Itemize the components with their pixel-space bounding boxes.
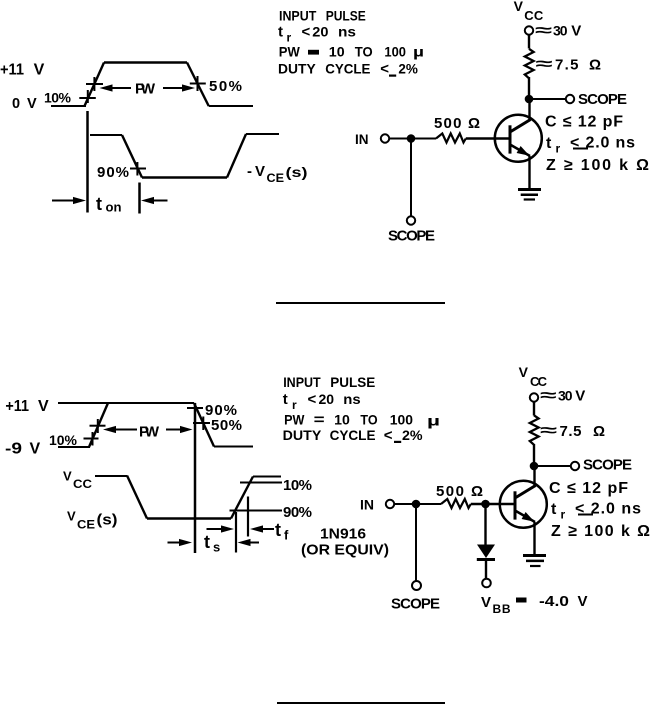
svg-text:V: V xyxy=(514,0,524,14)
svg-text:<: < xyxy=(380,60,389,77)
wire IN terminal to node xyxy=(389,138,407,140)
svg-text:V: V xyxy=(38,398,49,415)
wire input falling edge xyxy=(187,63,209,107)
svg-text:20: 20 xyxy=(312,23,328,39)
svg-text:C ≤ 12 pF: C ≤ 12 pF xyxy=(549,480,628,497)
node collector junction xyxy=(525,95,534,104)
PW right arrow xyxy=(163,87,183,89)
svg-text:SCOPE: SCOPE xyxy=(583,457,632,474)
svg-text:PULSE: PULSE xyxy=(330,374,375,390)
wire VCC level leader xyxy=(95,475,127,477)
resistor 500 ohm xyxy=(436,134,466,143)
wire node down to collector xyxy=(533,466,535,487)
terminal SCOPE collector xyxy=(571,462,579,470)
t_f left arrow xyxy=(207,528,223,530)
ground symbol xyxy=(518,188,541,191)
svg-text:100: 100 xyxy=(384,43,406,59)
wire resistor to base xyxy=(471,503,515,506)
svg-text:Z ≥ 100 k Ω: Z ≥ 100 k Ω xyxy=(546,157,649,174)
svg-text:CYCLE: CYCLE xyxy=(325,60,370,76)
svg-text:10%: 10% xyxy=(283,477,312,494)
svg-text:r: r xyxy=(561,508,566,522)
t_s left arrow xyxy=(168,542,181,544)
transistor Q1 body xyxy=(495,115,542,162)
leader 90% output xyxy=(230,510,283,512)
tick 10% on rising edge xyxy=(79,97,96,99)
node diode junction xyxy=(481,500,490,509)
wire input pulse top xyxy=(104,61,187,63)
svg-text:V: V xyxy=(575,388,585,405)
ground symbol xyxy=(523,554,546,557)
svg-text:≈: ≈ xyxy=(540,388,557,405)
tick 50% on falling edge xyxy=(193,422,210,424)
transistor Q1 collector lead xyxy=(510,120,531,133)
svg-text:<: < xyxy=(302,23,311,40)
svg-text:1N916: 1N916 xyxy=(320,526,366,543)
svg-text:0: 0 xyxy=(12,96,20,112)
svg-text:7.5: 7.5 xyxy=(555,57,579,74)
svg-text:90%: 90% xyxy=(283,504,312,521)
svg-text:s: s xyxy=(213,540,220,555)
t_on left arrow xyxy=(52,200,74,202)
wire +11V level line xyxy=(58,402,194,404)
wire diode to VBB terminal xyxy=(485,561,487,580)
svg-text:f: f xyxy=(284,528,289,543)
wire input rising edge xyxy=(85,63,105,107)
wire output top-left flat xyxy=(90,134,122,136)
diode 1N916 xyxy=(477,545,495,559)
wire IN terminal to node xyxy=(394,503,412,505)
svg-text:V: V xyxy=(481,594,491,611)
svg-text:PW: PW xyxy=(135,81,156,98)
svg-text:r: r xyxy=(556,142,561,156)
wire resistor to collector node xyxy=(528,77,530,99)
node collector junction xyxy=(530,462,539,471)
svg-text:≈: ≈ xyxy=(535,23,552,40)
wire emitter to ground xyxy=(528,156,530,189)
transistor Q2 base bar xyxy=(514,491,517,519)
svg-text:(OR EQUIV): (OR EQUIV) xyxy=(301,542,389,559)
svg-text:ns: ns xyxy=(343,391,361,407)
svg-text:20: 20 xyxy=(319,391,335,407)
wire VCC terminal to resistor xyxy=(528,35,530,49)
svg-text:10%: 10% xyxy=(49,432,78,448)
svg-text:ns: ns xyxy=(338,23,356,39)
wire node to resistor xyxy=(416,503,441,505)
tick 90% on falling edge xyxy=(187,407,203,409)
measurement line at 90% output point xyxy=(138,183,141,214)
t_f right arrow xyxy=(262,528,274,530)
svg-text:CYCLE: CYCLE xyxy=(330,427,376,443)
wire IN node down to scope xyxy=(410,139,412,217)
svg-text:Ω: Ω xyxy=(593,423,605,440)
wire node down to collector xyxy=(528,99,530,121)
svg-text:TO: TO xyxy=(355,43,373,59)
svg-text:CC: CC xyxy=(524,8,544,23)
svg-text:SCOPE: SCOPE xyxy=(388,228,435,245)
svg-text:t: t xyxy=(204,532,210,552)
svg-text:+11: +11 xyxy=(0,62,24,79)
svg-text:2%: 2% xyxy=(402,427,423,443)
svg-text:Ω: Ω xyxy=(589,57,601,74)
svg-text:Z ≥ 100 k Ω: Z ≥ 100 k Ω xyxy=(551,523,650,540)
svg-text:30: 30 xyxy=(553,23,568,39)
PW left arrow xyxy=(115,429,137,431)
svg-text:CE: CE xyxy=(77,518,95,532)
svg-text:SCOPE: SCOPE xyxy=(391,596,440,613)
svg-text:7.5: 7.5 xyxy=(560,423,582,440)
PW right arrow xyxy=(166,429,181,431)
wire output falling edge xyxy=(122,135,142,178)
resistor 500 ohm xyxy=(441,499,471,508)
svg-text:BB: BB xyxy=(493,602,511,616)
wire diode node down xyxy=(484,504,486,545)
divider line between figures xyxy=(276,302,445,304)
transistor Q2 emitter arrow xyxy=(522,512,535,522)
wire output rising edge xyxy=(227,134,246,178)
svg-text:V: V xyxy=(27,96,37,112)
svg-text:INPUT: INPUT xyxy=(283,374,321,390)
transistor Q2 collector lead xyxy=(515,486,536,499)
wire 0V baseline xyxy=(51,105,86,107)
tick and leader 10% output xyxy=(240,482,282,484)
wire output top flat xyxy=(253,476,281,478)
bottom divider line xyxy=(277,702,445,704)
wire node to scope terminal xyxy=(529,98,566,100)
svg-text:50%: 50% xyxy=(209,78,242,95)
svg-text:<: < xyxy=(308,391,317,408)
svg-text:t: t xyxy=(275,520,281,540)
terminal VBB xyxy=(482,579,491,588)
svg-text:10%: 10% xyxy=(44,90,72,106)
wire emitter to ground xyxy=(533,522,535,556)
transistor Q1 emitter arrow xyxy=(517,146,530,156)
svg-text:PULSE: PULSE xyxy=(326,7,366,23)
svg-text:10: 10 xyxy=(334,412,350,428)
svg-text:CC: CC xyxy=(73,477,92,491)
svg-text:≈: ≈ xyxy=(540,423,557,440)
svg-text:500 Ω: 500 Ω xyxy=(436,483,483,500)
svg-text:on: on xyxy=(106,200,122,215)
wire input falling edge xyxy=(194,403,214,447)
resistor 7.5 ohm xyxy=(530,415,539,445)
terminal SCOPE input xyxy=(407,216,415,224)
terminal SCOPE input xyxy=(412,581,421,590)
tick 50% on falling edge xyxy=(190,83,206,85)
svg-text:t: t xyxy=(278,23,283,40)
svg-text:t: t xyxy=(283,391,288,408)
svg-text:PW: PW xyxy=(139,424,160,441)
svg-text:-V: -V xyxy=(247,163,265,180)
svg-text:IN: IN xyxy=(360,497,374,513)
svg-text:V: V xyxy=(67,509,76,524)
t_s right arrow xyxy=(249,542,259,544)
svg-text:INPUT: INPUT xyxy=(279,7,317,23)
svg-text:V: V xyxy=(63,469,72,484)
svg-text:C ≤ 12 pF: C ≤ 12 pF xyxy=(545,114,623,131)
svg-text:DUTY: DUTY xyxy=(278,60,316,76)
svg-text:≈: ≈ xyxy=(536,56,553,73)
svg-text:V: V xyxy=(34,62,45,79)
svg-text:µ: µ xyxy=(427,413,440,429)
svg-text:2%: 2% xyxy=(398,60,418,76)
wire node to scope terminal xyxy=(534,465,571,467)
svg-text:100: 100 xyxy=(390,412,413,428)
wire output rising edge xyxy=(231,477,253,519)
wire VCC terminal to resistor xyxy=(533,402,535,416)
transistor Q1 emitter lead xyxy=(510,145,530,157)
svg-text:V: V xyxy=(519,364,529,380)
svg-text:30: 30 xyxy=(558,388,573,404)
svg-text:µ: µ xyxy=(413,44,424,60)
tick 50% on rising edge xyxy=(86,83,103,85)
wire output falling edge xyxy=(127,476,147,519)
svg-text:V: V xyxy=(30,441,41,458)
transistor Q1 base bar xyxy=(509,125,512,153)
measurement line at 10% output xyxy=(247,497,249,537)
transistor Q2 emitter lead xyxy=(515,511,535,523)
tick 90% on output falling edge xyxy=(130,168,146,170)
svg-text:=: = xyxy=(314,412,325,429)
PW left arrow xyxy=(111,87,131,89)
svg-text:DUTY: DUTY xyxy=(283,427,322,443)
wire output top-right flat xyxy=(246,133,279,135)
measurement line at 90% output xyxy=(235,512,237,553)
tick 50% on rising edge xyxy=(90,425,106,427)
tick 10% on rising edge xyxy=(84,438,99,440)
svg-text:t: t xyxy=(546,135,552,152)
wire node to resistor xyxy=(411,138,436,140)
svg-text:CE: CE xyxy=(267,171,285,185)
svg-text:t: t xyxy=(551,501,557,518)
wire output bottom flat xyxy=(142,176,227,178)
wire input lower right level xyxy=(209,105,253,107)
resistor 7.5 ohm xyxy=(525,49,534,79)
svg-text:10: 10 xyxy=(329,43,345,59)
svg-text:r: r xyxy=(292,398,297,412)
svg-text:+11: +11 xyxy=(5,398,29,415)
wire -9V baseline xyxy=(58,446,90,448)
svg-text:IN: IN xyxy=(355,131,369,147)
svg-text:-4.0: -4.0 xyxy=(539,593,569,610)
svg-text:<: < xyxy=(384,427,393,444)
wire input lower right level xyxy=(214,446,253,448)
t_on right arrow xyxy=(153,200,168,202)
measurement line at input falling edge xyxy=(194,403,197,553)
svg-text:TO: TO xyxy=(360,412,377,428)
svg-text:PW: PW xyxy=(284,412,305,428)
wire input rising edge xyxy=(89,403,108,447)
svg-text:V: V xyxy=(571,23,581,40)
node IN junction xyxy=(412,500,421,509)
svg-text:(s): (s) xyxy=(97,513,118,529)
wire resistor to base xyxy=(466,137,510,140)
transistor Q2 body xyxy=(500,481,547,528)
wire resistor to collector node xyxy=(533,444,535,466)
node IN junction xyxy=(407,134,416,143)
terminal VCC xyxy=(530,393,538,401)
svg-text:(s): (s) xyxy=(286,164,308,180)
measurement line at 10% input point xyxy=(86,111,89,213)
terminal SCOPE collector xyxy=(566,95,574,103)
terminal VCC xyxy=(525,26,533,34)
svg-text:PW: PW xyxy=(279,43,301,59)
svg-text:t: t xyxy=(96,194,102,214)
svg-text:50%: 50% xyxy=(211,417,242,434)
terminal IN xyxy=(386,500,394,508)
wire IN node down to scope xyxy=(415,504,417,581)
svg-text:-9: -9 xyxy=(5,441,22,458)
svg-text:V: V xyxy=(578,593,588,610)
svg-text:SCOPE: SCOPE xyxy=(578,91,627,108)
svg-text:90%: 90% xyxy=(97,164,129,181)
wire output bottom flat xyxy=(147,517,231,519)
terminal IN xyxy=(381,134,389,142)
svg-text:500 Ω: 500 Ω xyxy=(434,115,480,132)
